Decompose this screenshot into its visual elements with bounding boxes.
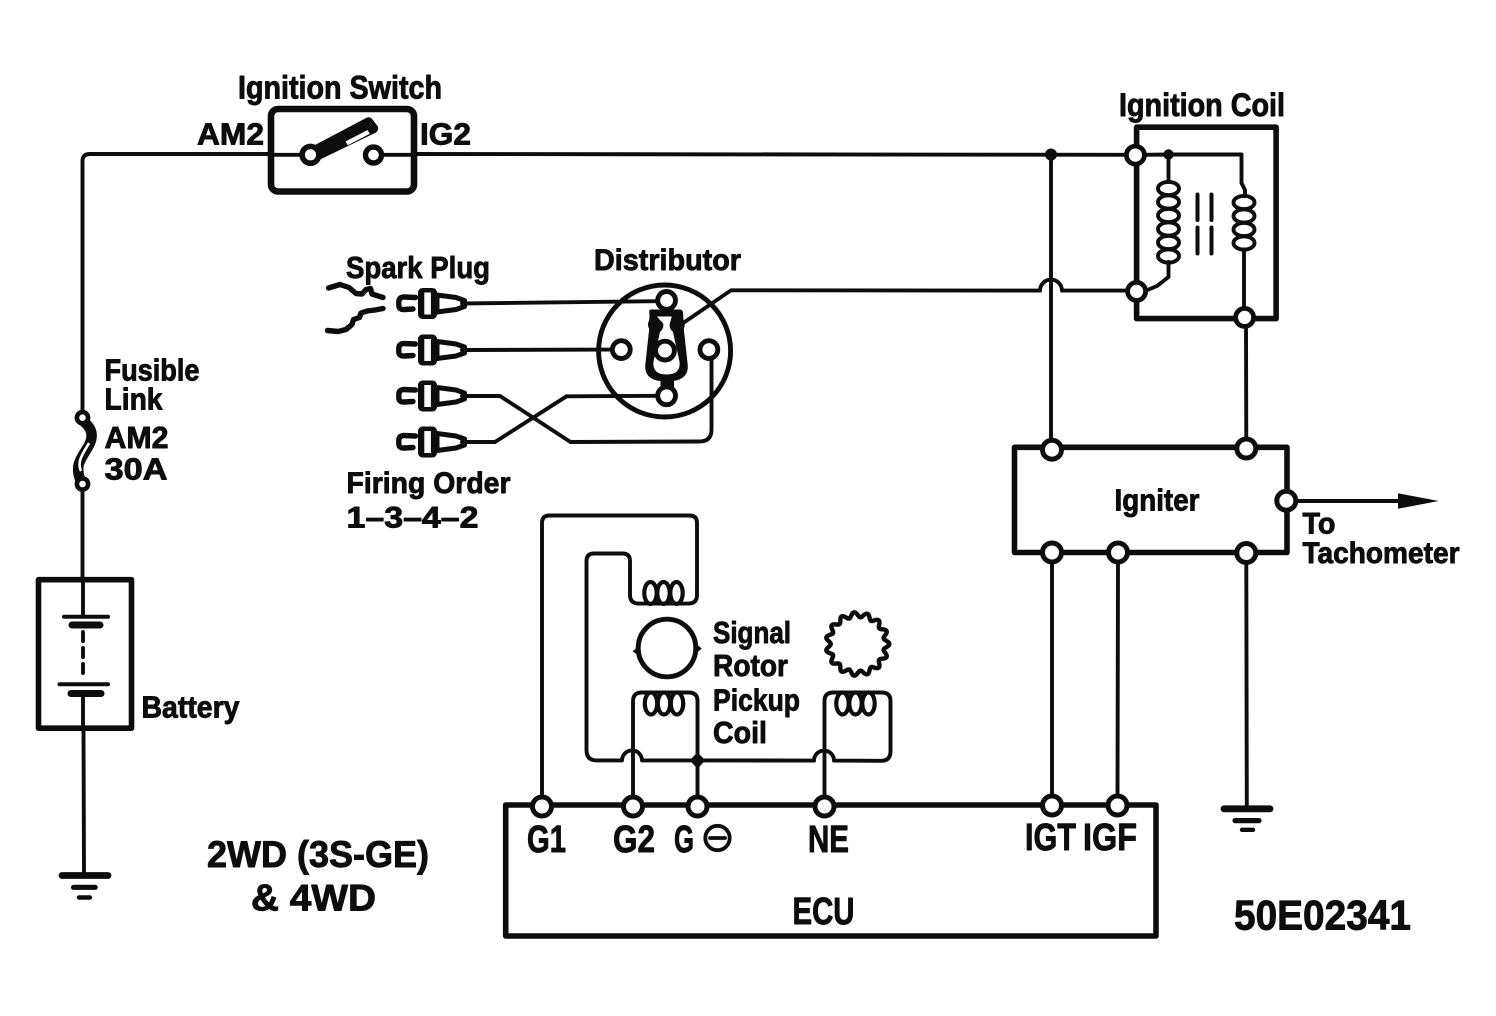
wire common line to NE pickup (702, 693, 891, 798)
distributor rotor body silhouette (645, 310, 688, 382)
ignition coil terminal - (bottom left) (1128, 282, 1146, 300)
ignition coil HT terminal (bottom) (1236, 308, 1254, 326)
distributor top terminal (658, 292, 676, 310)
pickup coil (G2) (633, 693, 698, 798)
wire spark plug 3 lower run to distributor right terminal (571, 359, 712, 442)
distributor right terminal (700, 341, 718, 359)
svg-text:G: G (674, 819, 694, 861)
spark plug 3 (399, 381, 466, 412)
battery top lead (81, 580, 85, 614)
fusible link bottom circle (77, 478, 88, 489)
fusible link label (105, 353, 200, 487)
battery BT1 box (39, 580, 132, 729)
svg-text:ECU: ECU (793, 891, 855, 933)
ignition switch contact right (366, 147, 382, 163)
ignition coil core lines (1198, 195, 1212, 254)
G minus symbol (705, 826, 729, 850)
igniter terminal bottom left IGT (1043, 543, 1062, 562)
NE toothed signal rotor (826, 612, 889, 675)
ECU terminal NE (815, 797, 834, 816)
svg-text:Coil: Coil (713, 715, 767, 750)
svg-text:G2: G2 (613, 819, 655, 861)
svg-text:Ignition Coil: Ignition Coil (1119, 87, 1285, 123)
spark plug 4 (399, 427, 466, 458)
pickup coil (NE) (836, 693, 874, 715)
pickup coil (G1) winding loops (644, 582, 682, 604)
wire igniter IGF to ECU (1116, 562, 1120, 797)
tachometer output wire (1296, 499, 1420, 503)
battery cell 2 long plate (60, 682, 109, 686)
svg-text:1–3–4–2: 1–3–4–2 (347, 502, 479, 535)
ignition coil T1 box (1137, 127, 1277, 318)
igniter terminal top right (1237, 439, 1256, 458)
svg-text:Signal: Signal (713, 615, 791, 650)
svg-text:Ignition Switch: Ignition Switch (238, 70, 442, 106)
svg-text:Spark Plug: Spark Plug (346, 250, 490, 285)
wire igniter IGT to ECU (1050, 562, 1054, 797)
battery cell 1 short plate (72, 622, 100, 629)
battery dashed internal link (81, 632, 85, 680)
svg-text:AM2: AM2 (105, 420, 169, 455)
ignition coil secondary bottom wire (1242, 250, 1246, 309)
ground symbol (battery) (62, 876, 108, 898)
distributor rotor bottom stub (661, 379, 675, 389)
pickup coil (G1) top (630, 588, 697, 604)
igniter terminal tach output (1277, 491, 1296, 510)
ignition coil secondary top wire (1174, 155, 1246, 197)
firing order label (347, 467, 511, 535)
svg-text:Firing Order: Firing Order (347, 467, 511, 500)
svg-text:IGF: IGF (1083, 817, 1137, 859)
battery bottom lead (81, 697, 85, 728)
wire spark plug 4 first segment (462, 396, 567, 442)
signal rotor pickup coil label (713, 615, 800, 750)
ignition coil primary winding L1 (1158, 182, 1179, 263)
svg-text:Distributor: Distributor (594, 244, 741, 277)
ignition switch inner wire left (271, 153, 303, 157)
ignition switch inner wire right (381, 153, 414, 157)
ECU box (506, 805, 1156, 936)
wire igniter to ground (1244, 562, 1248, 806)
wire G1 pickup loop (542, 516, 697, 798)
svg-text:& 4WD: & 4WD (251, 878, 376, 919)
distributor bottom terminal (658, 387, 676, 405)
ECU terminal IGF (1108, 796, 1127, 815)
tachometer arrowhead (1398, 493, 1439, 509)
svg-text:50E02341: 50E02341 (1234, 892, 1411, 939)
distributor rotor white interior (653, 317, 679, 375)
wire spark plug 4 upper run to distributor bottom terminal (567, 394, 658, 398)
node C junction dot common ground (690, 752, 706, 768)
node B junction dot primary/secondary (1163, 149, 1173, 159)
igniter terminal bottom middle IGF (1109, 543, 1128, 562)
wire ignition coil HT terminal to igniter top right (1244, 327, 1248, 447)
svg-text:G1: G1 (527, 819, 566, 861)
wire IG2 from ignition switch to ignition coil terminal (414, 152, 1134, 157)
svg-text:30A: 30A (105, 452, 168, 487)
wire spark plug 1 to distributor top terminal (462, 301, 658, 303)
2WD 4WD caption (207, 834, 429, 919)
distributor housing circle (599, 285, 731, 417)
igniter terminal bottom right ground (1237, 544, 1256, 563)
ground symbol (igniter) (1224, 809, 1270, 830)
svg-text:Link: Link (105, 382, 164, 417)
svg-text:AM2: AM2 (197, 117, 264, 152)
ECU terminal G (688, 797, 707, 816)
node A junction dot (1045, 149, 1057, 161)
svg-text:2WD (3S-GE): 2WD (3S-GE) (207, 834, 429, 875)
battery cell 2 short plate (71, 690, 101, 697)
wire common to ECU G terminal (696, 760, 700, 797)
fusible link F1 squiggle (78, 421, 92, 479)
fusible link squiggle slit (80, 444, 89, 470)
svg-text:To: To (1303, 508, 1336, 541)
wire fusible link to battery (81, 490, 85, 580)
igniter terminal top left (1043, 440, 1062, 459)
battery cell 1 long plate (64, 615, 108, 619)
ignition coil secondary winding L2 (1234, 196, 1255, 250)
fusible link top circle (77, 412, 88, 423)
signal rotor (G pickup) (638, 619, 696, 677)
svg-text:Pickup: Pickup (713, 683, 800, 718)
ECU terminal G2 (624, 797, 643, 816)
spark plug 1 (399, 288, 466, 319)
svg-text:Rotor: Rotor (713, 648, 788, 683)
wire inner loop to common (587, 554, 698, 761)
to tachometer label (1303, 508, 1460, 571)
ignition coil primary bottom wire (1145, 262, 1169, 291)
wire spark plug 2 to distributor left terminal (462, 348, 612, 352)
svg-text:NE: NE (808, 819, 849, 861)
ignition switch lever (306, 117, 379, 161)
ignition switch lever slit (346, 130, 370, 145)
ignition switch contact left (302, 146, 319, 163)
wire from junction A down to igniter IGT input (1049, 155, 1053, 448)
ECU terminal G1 (533, 797, 552, 816)
svg-text:Tachometer: Tachometer (1303, 537, 1460, 570)
spark symbol lower stroke (328, 309, 384, 332)
distributor left terminal (612, 341, 630, 359)
svg-text:IG2: IG2 (420, 117, 471, 152)
spark symbol upper stroke (329, 285, 384, 298)
svg-text:Battery: Battery (142, 690, 241, 725)
distributor rotor center circle (656, 341, 675, 360)
svg-text:IGT: IGT (1025, 817, 1076, 859)
ignition switch U1 box (271, 109, 414, 192)
pickup coil (G2) winding loops (645, 693, 683, 715)
spark plug 2 (399, 335, 466, 366)
wire battery to ground (82, 728, 86, 872)
svg-text:Igniter: Igniter (1115, 483, 1200, 518)
wire AM2 from battery branch to ignition switch (83, 154, 272, 412)
ignition coil terminal + (top left) (1126, 146, 1144, 164)
wire spark plug 3 first segment (462, 396, 571, 442)
ECU terminal IGT (1043, 796, 1062, 815)
ignition coil primary top wire (1144, 155, 1169, 183)
wire ignition coil secondary to distributor rotor (681, 280, 1128, 325)
ECU pin labels (527, 817, 1137, 861)
igniter U2 box (1015, 447, 1288, 552)
